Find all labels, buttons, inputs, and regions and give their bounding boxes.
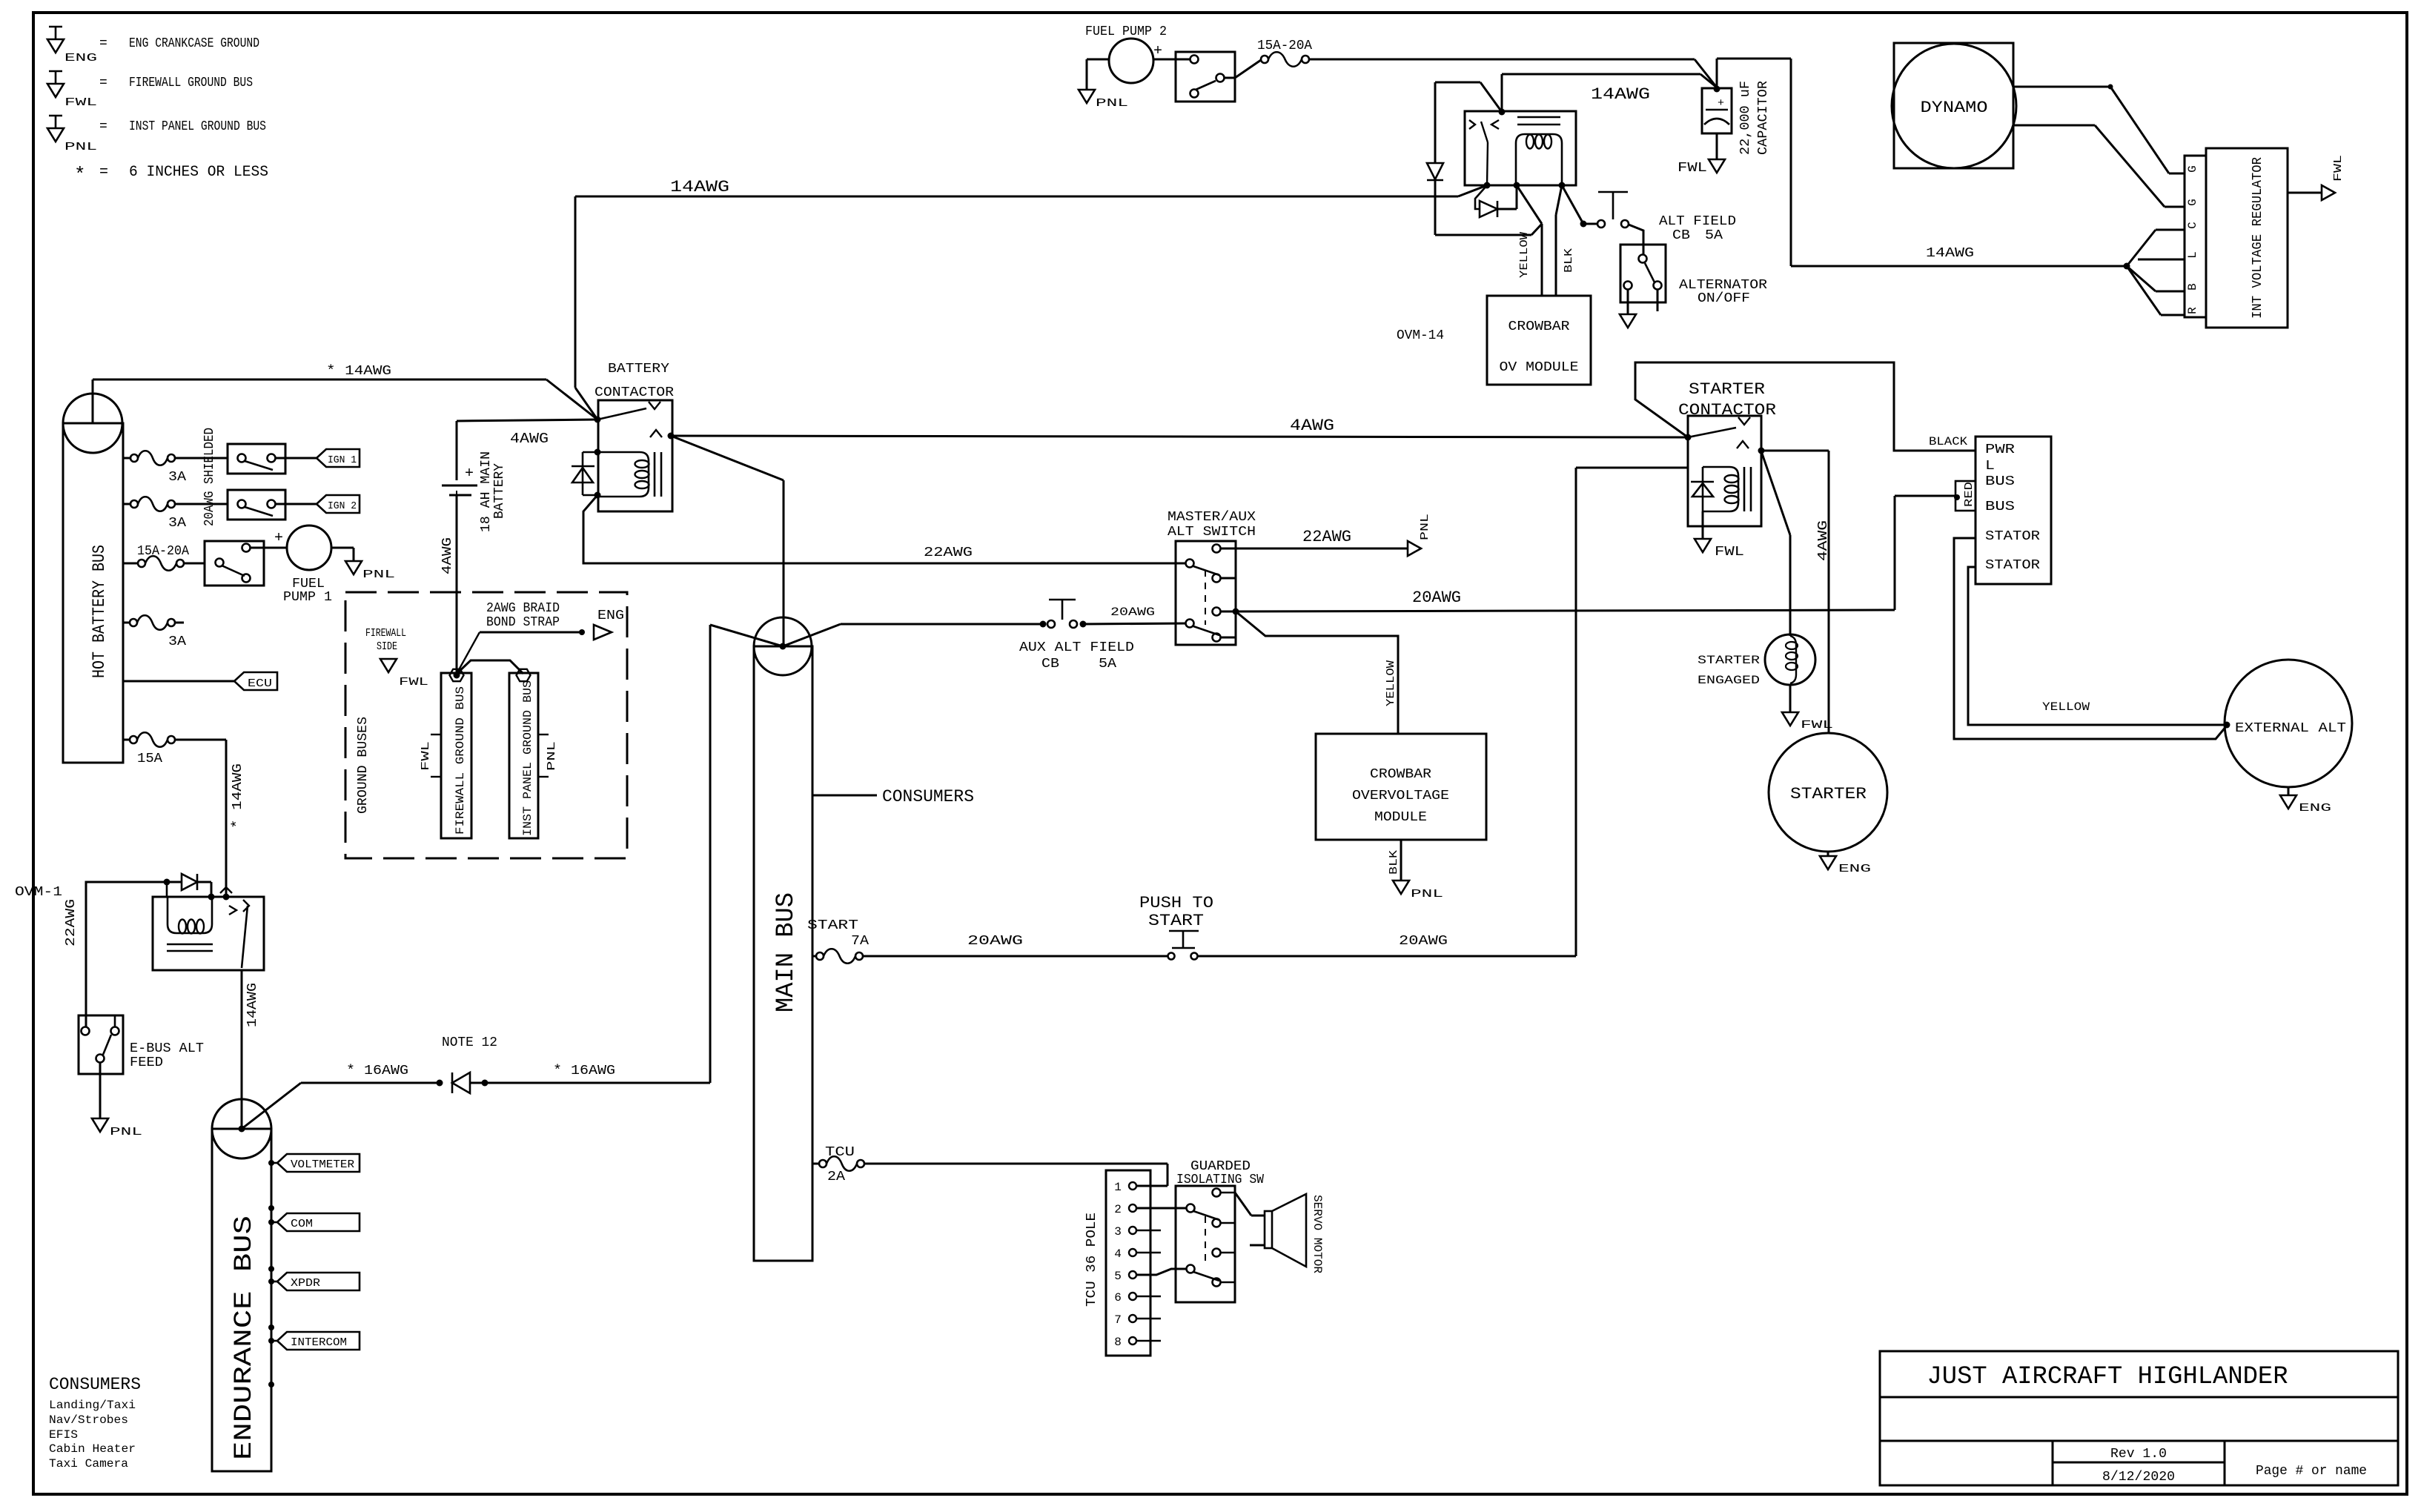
svg-text:+: + bbox=[1153, 43, 1162, 60]
starter contactor diode bbox=[1702, 467, 1704, 511]
svg-text:8/12/2020: 8/12/2020 bbox=[2102, 1470, 2175, 1485]
ground PNL ebus switch bbox=[92, 1118, 108, 1132]
endurance bus feed circle bbox=[212, 1099, 271, 1158]
svg-text:FWL: FWL bbox=[1678, 161, 1707, 176]
ground FWL regulator bbox=[2322, 185, 2335, 200]
svg-text:AUX ALT FIELD: AUX ALT FIELD bbox=[1019, 640, 1134, 655]
svg-text:B: B bbox=[2186, 283, 2199, 291]
svg-text:*: * bbox=[74, 164, 86, 186]
wire contactor to main bus bbox=[671, 436, 784, 480]
svg-text:BLACK: BLACK bbox=[1929, 435, 1967, 448]
svg-text:OVERVOLTAGE: OVERVOLTAGE bbox=[1352, 789, 1449, 803]
svg-text:14AWG: 14AWG bbox=[670, 178, 729, 196]
svg-text:Taxi Camera: Taxi Camera bbox=[49, 1457, 128, 1470]
wire stator 2 bbox=[1968, 567, 2227, 725]
svg-text:INT VOLTAGE REGULATOR: INT VOLTAGE REGULATOR bbox=[2251, 157, 2265, 319]
svg-text:22,000 uF: 22,000 uF bbox=[1738, 81, 1753, 155]
flag COM bbox=[268, 1205, 274, 1211]
contactor diode bbox=[583, 451, 598, 454]
wire pin5 to guarded switch bbox=[1136, 1269, 1186, 1275]
svg-text:FEED: FEED bbox=[130, 1055, 163, 1070]
servo motor symbol bbox=[1265, 1211, 1272, 1248]
svg-text:FUEL PUMP 2: FUEL PUMP 2 bbox=[1085, 24, 1167, 39]
contactor moving lever bbox=[597, 408, 646, 420]
wire BLK to PNL ground bbox=[1400, 840, 1402, 881]
svg-text:MASTER/AUX: MASTER/AUX bbox=[1168, 510, 1256, 525]
relay coil bbox=[1516, 134, 1562, 185]
aux alt field CB 5A bbox=[1040, 621, 1047, 628]
stub terminal 4 bbox=[1221, 637, 1236, 639]
node OVM-1 diode bbox=[164, 879, 170, 886]
svg-text:STARTER: STARTER bbox=[1689, 380, 1765, 399]
svg-text:+: + bbox=[465, 465, 474, 483]
svg-text:CB: CB bbox=[1041, 657, 1059, 672]
node alternator relay input bbox=[1499, 109, 1506, 116]
svg-text:STARTER: STARTER bbox=[1790, 785, 1867, 803]
fuse 15A-20A fuel pump 1 bbox=[123, 563, 138, 565]
wire 22AWG to PNL bbox=[1221, 548, 1408, 550]
left diode loop wire bbox=[1480, 82, 1502, 112]
svg-text:STATOR: STATOR bbox=[1985, 558, 2040, 573]
wire to IGN 1 flag bbox=[275, 457, 317, 460]
wire 20AWG to push to start bbox=[863, 955, 1168, 958]
svg-text:1: 1 bbox=[1114, 1181, 1122, 1194]
svg-text:IGN 1: IGN 1 bbox=[328, 454, 357, 466]
svg-text:STARTER: STARTER bbox=[1698, 654, 1760, 667]
diode note 12 bbox=[451, 1072, 454, 1093]
starter contactor lever bbox=[1688, 428, 1736, 437]
ground FWL firewall side symbol bbox=[380, 659, 397, 672]
PWR bus connector bbox=[1975, 437, 2051, 584]
main bus bar bbox=[754, 646, 812, 1261]
svg-text:15A-20A: 15A-20A bbox=[137, 544, 189, 559]
svg-text:Landing/Taxi: Landing/Taxi bbox=[49, 1399, 136, 1412]
wire BLK to crowbar OV module bbox=[1556, 185, 1562, 215]
svg-text:22AWG: 22AWG bbox=[1302, 528, 1351, 546]
wire switch to fuel pump 1 bbox=[251, 547, 287, 549]
flyback diode across relay coil bbox=[1475, 185, 1487, 209]
wire pin2 to guarded switch bbox=[1136, 1207, 1186, 1210]
wire starter to ENG ground bbox=[1827, 852, 1829, 856]
svg-text:20AWG: 20AWG bbox=[1412, 588, 1461, 607]
svg-text:BOND STRAP: BOND STRAP bbox=[486, 615, 560, 630]
relay coil OVM-1 bbox=[168, 897, 212, 933]
legend PNL inst panel ground symbol bbox=[49, 115, 62, 117]
TCU 36 pole connector bbox=[1106, 1170, 1150, 1356]
svg-text:BUS: BUS bbox=[1985, 474, 2015, 489]
svg-text:FWL: FWL bbox=[2332, 155, 2345, 182]
stub L pin bbox=[2138, 259, 2185, 261]
svg-text:FUEL: FUEL bbox=[292, 577, 325, 591]
svg-text:3: 3 bbox=[1114, 1225, 1122, 1239]
wire fan to B pin bbox=[2127, 266, 2156, 291]
int voltage regulator box bbox=[2206, 148, 2288, 328]
svg-text:Nav/Strobes: Nav/Strobes bbox=[49, 1413, 128, 1427]
svg-text:4AWG: 4AWG bbox=[510, 431, 549, 447]
wire 14AWG relay to capacitor node bbox=[1502, 73, 1700, 76]
title block bbox=[1880, 1351, 2398, 1485]
svg-text:SIDE: SIDE bbox=[377, 640, 397, 653]
diode OVM-1 bbox=[167, 881, 182, 883]
flag IGN 2 bbox=[317, 495, 360, 513]
wire to IGN 2 flag bbox=[275, 503, 317, 505]
starter contactor box bbox=[1688, 416, 1761, 526]
node contactor input bbox=[595, 417, 601, 423]
relay contact marks bbox=[1469, 120, 1475, 129]
svg-text:6: 6 bbox=[1114, 1291, 1122, 1304]
wire main bus to aux alt field CB bbox=[783, 624, 841, 646]
flag VOLTMETER bbox=[268, 1160, 274, 1166]
svg-text:20AWG: 20AWG bbox=[1110, 606, 1155, 619]
wire 15A fuse down to OVM-1 bbox=[175, 739, 226, 741]
svg-text:PNL: PNL bbox=[64, 141, 97, 153]
svg-text:* 14AWG: * 14AWG bbox=[231, 763, 245, 829]
svg-text:=: = bbox=[99, 119, 107, 134]
node endurance bus spare bbox=[268, 1382, 274, 1387]
svg-text:PNL: PNL bbox=[546, 741, 558, 771]
svg-text:15A-20A: 15A-20A bbox=[1257, 39, 1312, 53]
wire 14AWG fuse to capacitor node bbox=[1309, 59, 1695, 61]
svg-text:PNL: PNL bbox=[1411, 888, 1443, 901]
FWL tick marks bbox=[431, 734, 441, 735]
svg-text:14AWG: 14AWG bbox=[1591, 85, 1650, 104]
svg-text:ALT SWITCH: ALT SWITCH bbox=[1168, 525, 1256, 540]
svg-text:=: = bbox=[99, 76, 107, 90]
fuse 3A spare bbox=[123, 622, 130, 624]
flag INTERCOM bbox=[268, 1324, 274, 1330]
ign 2 switch bbox=[228, 490, 285, 520]
crowbar OV module box bbox=[1487, 296, 1591, 385]
fuse TCU 2A bbox=[812, 1163, 819, 1165]
svg-text:OVM-14: OVM-14 bbox=[1397, 328, 1444, 343]
capacitor 22000uF box bbox=[1702, 88, 1732, 133]
svg-text:5A: 5A bbox=[1099, 657, 1116, 672]
svg-text:BLK: BLK bbox=[1388, 850, 1400, 875]
wire RED input bbox=[1894, 496, 1896, 610]
svg-text:20AWG: 20AWG bbox=[967, 934, 1023, 949]
ign 1 switch bbox=[228, 444, 285, 474]
wire switch to PNL ground bbox=[99, 1062, 102, 1118]
svg-text:ENG CRANKCASE GROUND: ENG CRANKCASE GROUND bbox=[129, 36, 259, 51]
wire 4AWG contactor to starter contactor bbox=[671, 436, 1688, 437]
wire bus feed up bbox=[92, 379, 94, 423]
svg-text:Cabin Heater: Cabin Heater bbox=[49, 1442, 136, 1456]
svg-text:FIREWALL GROUND BUS: FIREWALL GROUND BUS bbox=[129, 76, 253, 90]
svg-text:FWL: FWL bbox=[420, 741, 432, 771]
svg-text:ON/OFF: ON/OFF bbox=[1698, 291, 1750, 306]
svg-text:CROWBAR: CROWBAR bbox=[1508, 319, 1570, 334]
bolt firewall ground bus bbox=[450, 669, 464, 681]
svg-text:CONSUMERS: CONSUMERS bbox=[49, 1375, 141, 1394]
node starter contactor input bbox=[1685, 434, 1692, 441]
ground alternator switch bbox=[1620, 314, 1636, 328]
relay bottom nodes bbox=[1484, 182, 1491, 189]
wire TCU fuse to TCU connector bbox=[864, 1163, 1168, 1165]
svg-text:YELLOW: YELLOW bbox=[2042, 700, 2090, 714]
wire YELLOW to crowbar OV module bbox=[1517, 185, 1542, 224]
bond strap leader to ENG ground bbox=[457, 632, 480, 674]
svg-text:L: L bbox=[2186, 251, 2199, 259]
svg-text:4AWG: 4AWG bbox=[1816, 520, 1831, 561]
wire lamp to FWL ground bbox=[1789, 685, 1792, 712]
svg-text:6 INCHES OR LESS: 6 INCHES OR LESS bbox=[129, 164, 268, 181]
wire CB to alternator switch bbox=[1629, 225, 1643, 255]
wire switch to fuse 15A-20A bbox=[1225, 77, 1235, 79]
starter contactor coil feed bbox=[1576, 467, 1688, 469]
svg-text:PNL: PNL bbox=[362, 568, 395, 581]
svg-text:HOT BATTERY BUS: HOT BATTERY BUS bbox=[90, 545, 109, 678]
ground ENG starter bbox=[1820, 856, 1836, 869]
svg-text:BLK: BLK bbox=[1563, 248, 1575, 273]
svg-text:NOTE 12: NOTE 12 bbox=[442, 1035, 497, 1050]
svg-text:INTERCOM: INTERCOM bbox=[291, 1336, 347, 1349]
bolt inst panel ground bus bbox=[517, 669, 531, 681]
node regulator fan bbox=[2124, 263, 2130, 270]
svg-text:TCU 36 POLE: TCU 36 POLE bbox=[1084, 1213, 1099, 1307]
svg-text:L: L bbox=[1985, 459, 1995, 474]
svg-text:18 AH MAIN: 18 AH MAIN bbox=[479, 451, 494, 532]
svg-text:ENG: ENG bbox=[1838, 863, 1871, 875]
svg-text:CONSUMERS: CONSUMERS bbox=[882, 787, 974, 806]
wire fuel pump 2 to ground bbox=[1087, 59, 1109, 61]
svg-text:Page # or name: Page # or name bbox=[2256, 1464, 2367, 1479]
wire 22AWG battery contactor to relay bbox=[575, 196, 1458, 198]
svg-text:PWR: PWR bbox=[1985, 442, 2015, 457]
wire yellow to crowbar overvoltage module bbox=[1236, 611, 1398, 734]
fuel pump 2 motor bbox=[1109, 39, 1153, 83]
svg-text:7: 7 bbox=[1114, 1313, 1122, 1327]
ground PNL crowbar module bbox=[1393, 881, 1409, 894]
fuse START 7A bbox=[812, 955, 816, 958]
svg-text:CROWBAR: CROWBAR bbox=[1370, 767, 1431, 782]
svg-text:PNL: PNL bbox=[1419, 514, 1431, 540]
svg-text:8: 8 bbox=[1114, 1336, 1122, 1349]
wire to fuel pump 1 switch bbox=[184, 563, 205, 565]
dynamo box bbox=[1894, 43, 2013, 168]
svg-text:4AWG: 4AWG bbox=[440, 537, 455, 574]
svg-text:SERVO MOTOR: SERVO MOTOR bbox=[1311, 1195, 1324, 1273]
svg-text:FWL: FWL bbox=[1801, 719, 1833, 732]
svg-text:C: C bbox=[2186, 222, 2199, 229]
wire capacitor to ground bbox=[1716, 133, 1718, 159]
stub servo lead 2 bbox=[1250, 1244, 1265, 1247]
alternator on/off switch bbox=[1620, 245, 1666, 302]
svg-text:2AWG BRAID: 2AWG BRAID bbox=[486, 601, 560, 616]
svg-text:ENG: ENG bbox=[64, 52, 97, 64]
svg-text:* 16AWG: * 16AWG bbox=[553, 1064, 615, 1078]
svg-text:ENG: ENG bbox=[2299, 802, 2331, 815]
inst panel ground bus bar bbox=[509, 673, 538, 838]
svg-text:CB: CB bbox=[1672, 228, 1690, 243]
legend ENG crankcase ground symbol bbox=[49, 26, 62, 28]
svg-text:ALTERNATOR: ALTERNATOR bbox=[1679, 278, 1767, 293]
svg-text:CAPACITOR: CAPACITOR bbox=[1756, 81, 1771, 155]
svg-text:EXTERNAL ALT: EXTERNAL ALT bbox=[2235, 721, 2346, 736]
wire to starter engaged lamp bbox=[1761, 451, 1790, 535]
svg-text:STATOR: STATOR bbox=[1985, 529, 2040, 544]
regulator pin strip bbox=[2185, 156, 2206, 317]
legend FWL firewall ground symbol bbox=[49, 70, 62, 73]
svg-text:ECU: ECU bbox=[248, 677, 272, 690]
flag ECU bbox=[234, 672, 277, 690]
2AWG braid bond strap bbox=[457, 660, 523, 674]
svg-text:FWL: FWL bbox=[1715, 545, 1744, 560]
svg-text:INST PANEL GROUND BUS: INST PANEL GROUND BUS bbox=[129, 119, 266, 134]
svg-text:OV MODULE: OV MODULE bbox=[1500, 360, 1579, 375]
wire dynamo G1 bbox=[2013, 86, 2110, 88]
svg-text:G: G bbox=[2186, 165, 2199, 173]
wire ebus feed diagonal into main bus bbox=[710, 625, 783, 646]
svg-text:CONTACTOR: CONTACTOR bbox=[595, 385, 674, 400]
fuse 3A ign1 bbox=[123, 457, 130, 460]
svg-text:PUMP 1: PUMP 1 bbox=[283, 590, 332, 605]
node starter contactor output bbox=[1758, 448, 1765, 454]
svg-text:JUST AIRCRAFT HIGHLANDER: JUST AIRCRAFT HIGHLANDER bbox=[1927, 1363, 2288, 1391]
ground PNL master switch bbox=[1408, 541, 1421, 556]
svg-text:GUARDED: GUARDED bbox=[1190, 1159, 1251, 1174]
svg-text:14AWG: 14AWG bbox=[245, 983, 260, 1027]
wire fuel pump 1 to ground bbox=[331, 547, 354, 549]
svg-text:=: = bbox=[99, 164, 108, 181]
firewall ground bus bar bbox=[441, 673, 471, 838]
svg-text:ENG: ENG bbox=[597, 609, 624, 623]
svg-text:ENGAGED: ENGAGED bbox=[1698, 674, 1760, 687]
wire 14AWG relay to endurance bus bbox=[241, 970, 243, 1129]
wire 22AWG ebus switch to relay bbox=[86, 882, 167, 1027]
hot battery bus feed circle bbox=[63, 394, 122, 453]
svg-text:3A: 3A bbox=[168, 516, 186, 531]
master aux alt switch box bbox=[1176, 541, 1236, 645]
svg-text:7A: 7A bbox=[851, 934, 869, 949]
wire capacitor node up and right 14AWG bbox=[1716, 59, 1718, 88]
svg-text:R: R bbox=[2186, 307, 2199, 314]
wire external alt to ENG ground bbox=[2288, 787, 2290, 795]
ground ENG external alt bbox=[2280, 795, 2296, 809]
svg-text:22AWG: 22AWG bbox=[924, 546, 973, 560]
contactor output contact bbox=[650, 430, 662, 437]
wire to ign2 switch bbox=[175, 503, 228, 505]
svg-text:START: START bbox=[807, 918, 858, 933]
wire regulator to FWL ground bbox=[2288, 192, 2322, 194]
svg-text:PUSH TO: PUSH TO bbox=[1139, 894, 1213, 912]
external alt circle bbox=[2225, 660, 2352, 787]
svg-text:IGN 2: IGN 2 bbox=[328, 500, 357, 512]
svg-text:FWL: FWL bbox=[399, 676, 428, 689]
svg-text:RED: RED bbox=[1963, 482, 1975, 507]
wire battery side over starter contactor to PWR bus bbox=[1635, 362, 1975, 451]
PNL tick marks bbox=[538, 734, 549, 735]
battery 18AH main bbox=[442, 485, 477, 487]
svg-text:14AWG: 14AWG bbox=[1926, 246, 1974, 261]
svg-text:VOLTMETER: VOLTMETER bbox=[291, 1158, 354, 1171]
svg-text:4AWG: 4AWG bbox=[1290, 417, 1334, 435]
fuel pump 2 switch bbox=[1176, 52, 1235, 102]
battery contactor box bbox=[598, 400, 672, 511]
svg-text:+: + bbox=[274, 530, 283, 547]
svg-text:START: START bbox=[1148, 912, 1204, 930]
wire y265 vertical to contactor node bbox=[574, 196, 577, 388]
svg-text:FWL: FWL bbox=[64, 96, 97, 109]
svg-text:MODULE: MODULE bbox=[1374, 810, 1427, 825]
svg-text:Rev 1.0: Rev 1.0 bbox=[2110, 1447, 2167, 1462]
ground ENG arrow bbox=[594, 625, 612, 640]
svg-text:5A: 5A bbox=[1705, 228, 1723, 243]
main bus feed circle bbox=[754, 617, 812, 675]
alt field CB 5A breaker bbox=[1597, 220, 1605, 228]
e-bus alt feed switch bbox=[79, 1015, 123, 1074]
svg-text:3A: 3A bbox=[168, 470, 186, 485]
ground FWL capacitor bbox=[1709, 159, 1725, 173]
fuel pump 1 motor bbox=[287, 525, 331, 570]
label consumers main bus bbox=[812, 795, 877, 797]
OVM-1 ebus relay box bbox=[153, 897, 264, 970]
svg-text:YELLOW: YELLOW bbox=[1518, 232, 1531, 278]
svg-text:XPDR: XPDR bbox=[291, 1277, 320, 1290]
ground FWL starter engaged bbox=[1782, 712, 1798, 726]
svg-text:MAIN BUS: MAIN BUS bbox=[772, 892, 801, 1012]
endurance bus bar bbox=[212, 1129, 271, 1471]
flag IGN 1 bbox=[317, 449, 360, 467]
svg-text:DYNAMO: DYNAMO bbox=[1921, 99, 1988, 117]
svg-text:22AWG: 22AWG bbox=[64, 899, 79, 946]
node capacitor bbox=[1714, 86, 1720, 93]
svg-text:* 14AWG: * 14AWG bbox=[326, 364, 391, 379]
flag XPDR bbox=[268, 1266, 274, 1272]
svg-text:ALT FIELD: ALT FIELD bbox=[1659, 214, 1736, 229]
wire to ign1 switch bbox=[175, 457, 228, 460]
svg-text:E-BUS ALT: E-BUS ALT bbox=[130, 1041, 204, 1056]
alternator B-lead relay box OVM-14 bbox=[1465, 111, 1576, 185]
wire endurance bus to note12 diode bbox=[242, 1083, 301, 1129]
svg-text:=: = bbox=[99, 36, 107, 51]
wire stator 1 bbox=[1954, 538, 2227, 739]
battery 18AH wire + bbox=[457, 420, 597, 421]
wire 20AWG push to start to starter contactor coil bbox=[1197, 955, 1576, 958]
stub terminal 2 bbox=[1221, 577, 1236, 580]
crowbar overvoltage module box bbox=[1316, 734, 1486, 840]
wire *14AWG to battery contactor bbox=[93, 379, 546, 381]
ground PNL fuel pump 1 bbox=[345, 561, 362, 574]
svg-text:BUS: BUS bbox=[1985, 500, 2015, 514]
diode D-left pointing down bbox=[1427, 163, 1443, 179]
wire 20AWG master switch to PWR bus bbox=[1221, 611, 1236, 613]
svg-text:FIREWALL GROUND BUS: FIREWALL GROUND BUS bbox=[454, 686, 467, 835]
svg-text:20AWG: 20AWG bbox=[1399, 934, 1448, 949]
svg-text:YELLOW: YELLOW bbox=[1385, 660, 1397, 706]
svg-text:15A: 15A bbox=[137, 752, 162, 766]
svg-text:20AWG SHIELDED: 20AWG SHIELDED bbox=[202, 428, 217, 526]
wire fan to C pin bbox=[2127, 230, 2156, 266]
fuse 3A ign2 bbox=[123, 503, 130, 505]
svg-text:BATTERY: BATTERY bbox=[608, 362, 669, 377]
dynamo circle bbox=[1892, 44, 2016, 168]
RED terminal box bbox=[1955, 481, 1975, 511]
ground buses dashed outline bbox=[345, 592, 627, 858]
svg-text:OVM-1: OVM-1 bbox=[15, 885, 62, 900]
wire dynamo G2 bbox=[2013, 125, 2095, 127]
svg-text:TCU: TCU bbox=[825, 1145, 855, 1160]
wire fuel pump 2 to switch bbox=[1153, 59, 1190, 61]
wire to ECU flag bbox=[123, 680, 234, 683]
svg-text:ENDURANCE BUS: ENDURANCE BUS bbox=[231, 1216, 259, 1460]
svg-text:3A: 3A bbox=[168, 634, 186, 649]
fuse 15A-20A fuel pump 2 bbox=[1261, 56, 1268, 63]
svg-text:5: 5 bbox=[1114, 1270, 1122, 1283]
starter motor bbox=[1769, 733, 1887, 852]
starter engaged lamp bbox=[1765, 634, 1815, 685]
svg-text:+: + bbox=[1718, 97, 1724, 110]
relay contact OVM-1 bbox=[223, 894, 230, 901]
